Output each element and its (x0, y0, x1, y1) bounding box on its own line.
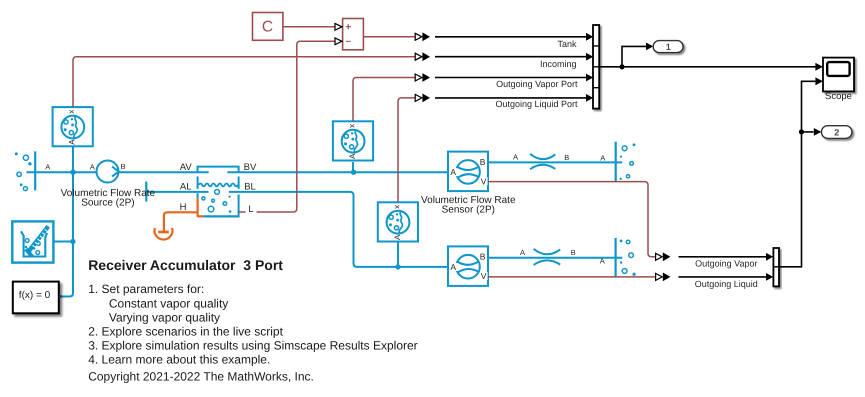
svg-text:4. Learn more about this examp: 4. Learn more about this example. (88, 353, 270, 367)
svg-text:Outgoing Liquid: Outgoing Liquid (695, 279, 758, 289)
svg-text:V: V (481, 271, 487, 281)
svg-text:3. Explore simulation results: 3. Explore simulation results using Sims… (88, 339, 417, 353)
svg-text:A: A (348, 153, 357, 159)
svg-text:A: A (393, 234, 402, 240)
svg-text:1. Set parameters for:: 1. Set parameters for: (88, 282, 204, 296)
svg-text:B: B (571, 248, 576, 257)
svg-text:BL: BL (244, 181, 256, 192)
svg-text:A: A (45, 163, 50, 172)
svg-text:H: H (180, 202, 187, 213)
svg-text:Source (2P): Source (2P) (81, 197, 134, 208)
svg-text:A: A (600, 153, 605, 162)
svg-text:B: B (480, 252, 486, 262)
svg-text:x: x (68, 110, 77, 114)
svg-text:2: 2 (834, 127, 839, 137)
svg-text:Tank: Tank (557, 39, 577, 49)
svg-text:B: B (121, 162, 126, 171)
svg-text:–: – (346, 36, 352, 47)
svg-text:x: x (393, 205, 402, 209)
svg-text:BV: BV (244, 162, 257, 173)
svg-text:f(x) = 0: f(x) = 0 (19, 290, 51, 301)
svg-text:AV: AV (180, 162, 193, 173)
svg-text:A: A (600, 257, 605, 266)
svg-text:AL: AL (180, 181, 192, 192)
svg-text:Sensor (2P): Sensor (2P) (442, 204, 495, 215)
svg-text:Varying vapor quality: Varying vapor quality (109, 310, 220, 324)
svg-text:Outgoing Vapor Port: Outgoing Vapor Port (496, 79, 578, 89)
svg-text:Outgoing Liquid Port: Outgoing Liquid Port (495, 99, 578, 109)
svg-text:A: A (90, 163, 95, 172)
svg-text:Outgoing Vapor: Outgoing Vapor (695, 258, 757, 268)
svg-text:L: L (248, 204, 253, 215)
svg-text:A: A (450, 262, 456, 272)
svg-text:2. Explore scenarios in the li: 2. Explore scenarios in the live script (88, 325, 283, 339)
svg-text:C: C (262, 18, 273, 35)
svg-text:A: A (513, 153, 518, 162)
svg-text:B: B (480, 157, 486, 167)
svg-text:1: 1 (666, 42, 671, 52)
svg-text:V: V (481, 176, 487, 186)
svg-text:+: + (345, 22, 351, 33)
svg-text:A: A (450, 167, 456, 177)
svg-text:Incoming: Incoming (540, 59, 577, 69)
svg-text:Constant vapor quality: Constant vapor quality (109, 296, 228, 310)
svg-text:Scope: Scope (825, 91, 852, 102)
svg-text:B: B (564, 153, 569, 162)
svg-text:Copyright 2021-2022 The MathWo: Copyright 2021-2022 The MathWorks, Inc. (88, 370, 314, 384)
svg-text:x: x (348, 124, 357, 128)
svg-text:A: A (68, 139, 77, 145)
svg-text:Receiver Accumulator 3 Port: Receiver Accumulator 3 Port (88, 257, 283, 273)
svg-text:A: A (520, 248, 525, 257)
